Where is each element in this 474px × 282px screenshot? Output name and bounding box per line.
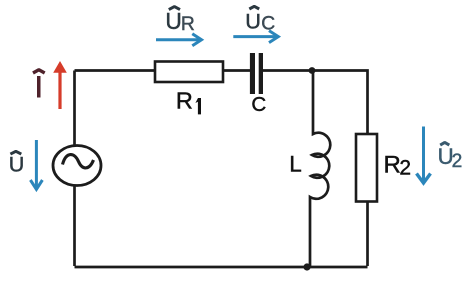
svg-text:C: C xyxy=(261,13,275,34)
svg-text:U: U xyxy=(165,8,181,34)
svg-text:R: R xyxy=(176,88,193,114)
svg-text:U: U xyxy=(9,152,25,176)
svg-text:2: 2 xyxy=(452,151,463,172)
svg-text:C: C xyxy=(251,93,266,116)
svg-text:R: R xyxy=(181,14,195,35)
svg-text:R: R xyxy=(384,152,401,179)
svg-text:2: 2 xyxy=(399,157,411,180)
svg-text:U: U xyxy=(245,8,261,33)
svg-text:L: L xyxy=(289,152,302,177)
